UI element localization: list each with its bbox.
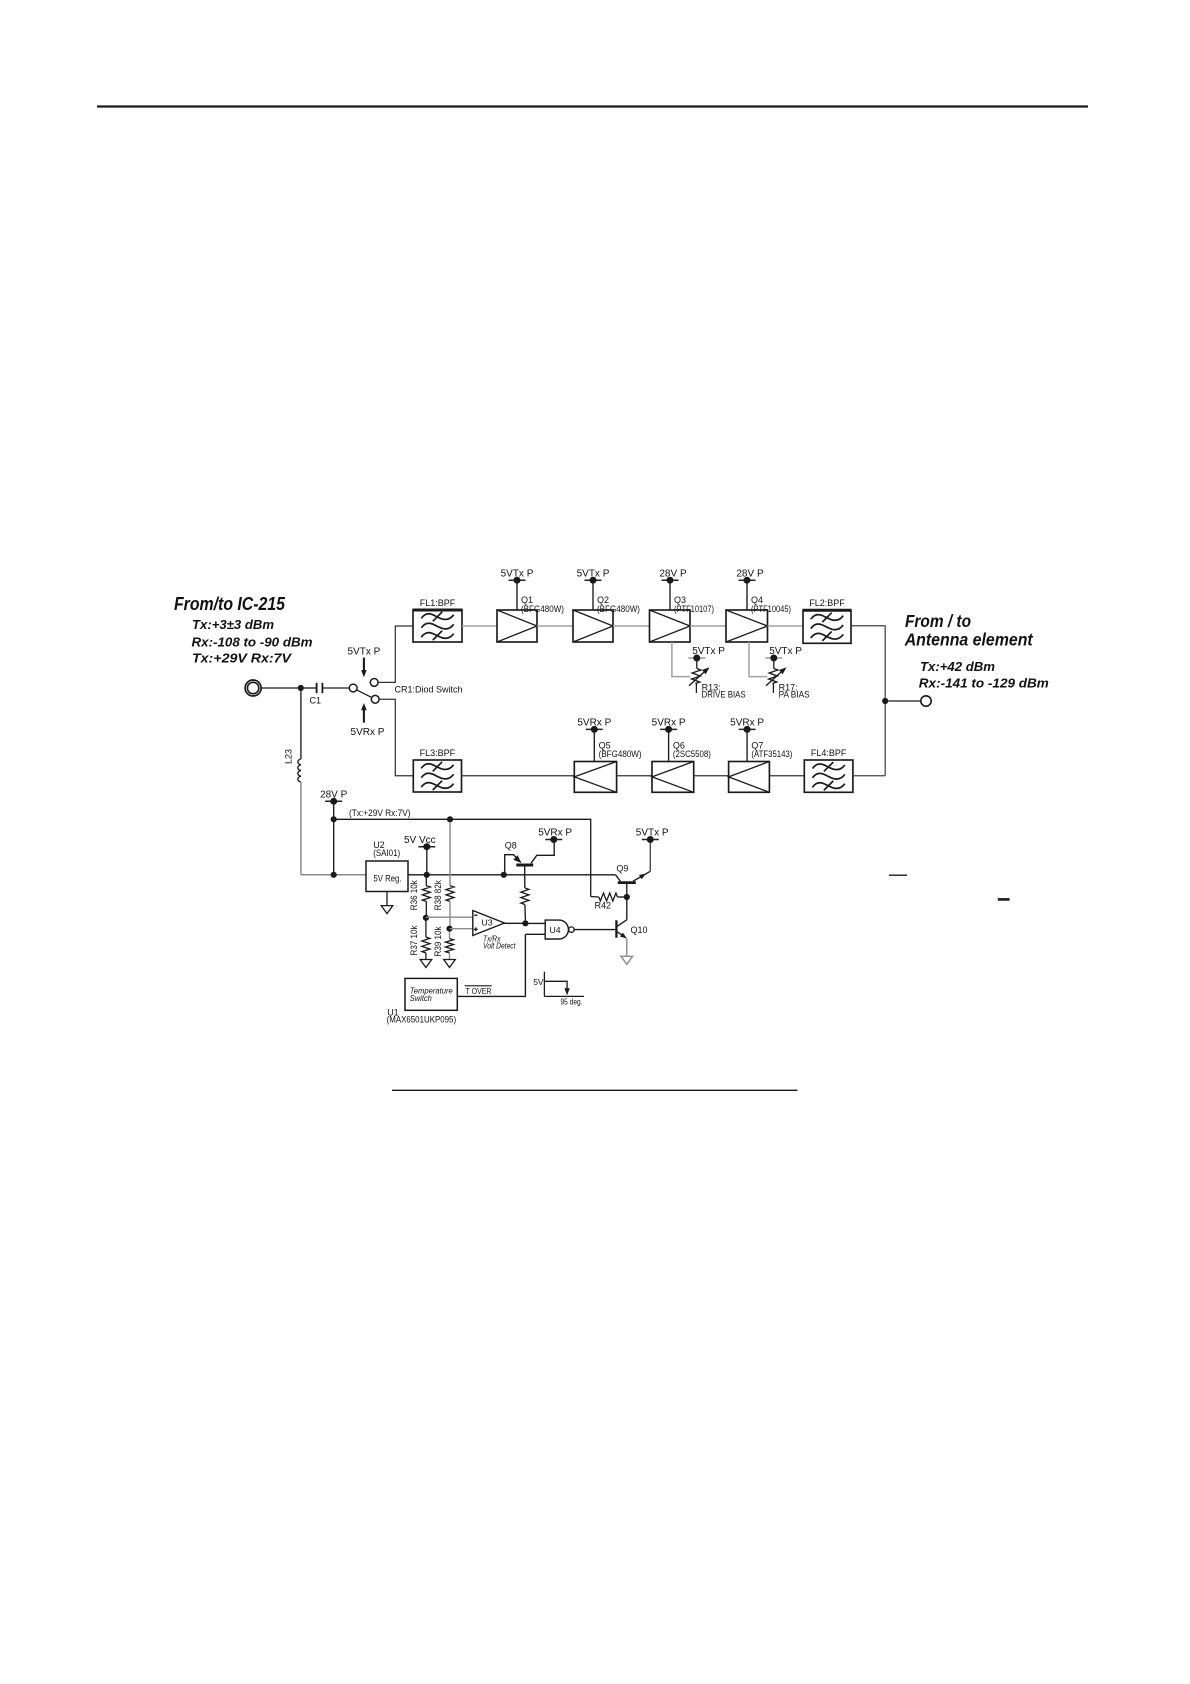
power 5VTx P (Q2) [577, 568, 610, 610]
wire [462, 775, 575, 777]
switch CR1 (common pole) [349, 684, 357, 692]
amplifier Q5 [574, 741, 641, 793]
switch CR1 throw contacts [370, 679, 379, 704]
wire (Q3 bias) [672, 642, 690, 677]
svg-text:5V: 5V [533, 977, 544, 987]
node [624, 894, 630, 900]
svg-text:(SAI01): (SAI01) [373, 848, 400, 858]
wire [449, 822, 451, 886]
label "Tx:+42 dBm" [920, 659, 995, 674]
wire (to U3 + input) [450, 928, 473, 930]
label "From/to IC-215" [174, 594, 286, 614]
node (input junction) [298, 685, 304, 691]
mark [889, 874, 907, 876]
svg-text:(ATF35143): (ATF35143) [751, 749, 792, 759]
wire [528, 922, 545, 924]
wire [301, 874, 366, 876]
wire (Tx:+29V Rx:7V rail) [334, 808, 591, 897]
transistor Q10 [616, 920, 647, 939]
wire [574, 929, 615, 931]
svg-text:28V P: 28V P [736, 568, 764, 579]
power 5VTx P (R17) [765, 646, 802, 661]
amplifier Q7 [729, 741, 793, 793]
power 5VTx P (Q9) [636, 828, 669, 843]
filter FL1 [413, 598, 463, 642]
control arrow 5VRx P (CR1) [351, 703, 385, 738]
wire [888, 700, 921, 702]
power 28V P (Q3) [659, 568, 687, 610]
svg-text:(BFG480W): (BFG480W) [599, 749, 642, 759]
power 5VTx P (R13) [688, 646, 725, 661]
svg-text:R38 82k: R38 82k [433, 880, 443, 910]
svg-text:From/to IC-215: From/to IC-215 [174, 594, 286, 614]
wire [617, 775, 652, 777]
power 5VRx P (Q5) [577, 718, 611, 762]
power 5V Vcc [404, 835, 436, 872]
switch CR1 arm [357, 690, 372, 698]
resistor R36 10k [409, 877, 430, 915]
svg-text:Tx:+42 dBm: Tx:+42 dBm [920, 659, 995, 674]
svg-text:R37 10k: R37 10k [409, 925, 419, 955]
filter FL3 [413, 748, 461, 792]
connector J2 (antenna) [921, 696, 931, 706]
power 28V P (rail) [320, 790, 348, 817]
node [423, 915, 429, 921]
svg-text:From / to: From / to [905, 611, 971, 631]
wire [300, 782, 302, 875]
resistor R37 10k [409, 921, 430, 960]
svg-text:(PTF10107): (PTF10107) [674, 604, 714, 614]
svg-text:U3: U3 [482, 918, 493, 928]
inductor L23 [284, 749, 301, 782]
svg-text:R36 10k: R36 10k [409, 880, 419, 910]
ground (U2) [381, 892, 393, 914]
svg-text:FL1:BPF: FL1:BPF [420, 598, 456, 608]
svg-text:(Tx:+29V Rx:7V): (Tx:+29V Rx:7V) [349, 808, 411, 818]
svg-text:5VTx P: 5VTx P [501, 568, 534, 579]
wire [853, 775, 885, 777]
node [501, 872, 507, 878]
svg-text:Q10: Q10 [631, 925, 648, 935]
transistor Q8 [505, 841, 555, 889]
amplifier Q1 [497, 595, 564, 642]
svg-text:5VRx P: 5VRx P [538, 828, 572, 839]
svg-text:5VTx P: 5VTx P [577, 568, 610, 579]
svg-text:5VRx P: 5VRx P [351, 727, 385, 738]
wire [626, 900, 628, 920]
svg-text:5VTx P: 5VTx P [692, 646, 725, 657]
resistor R38 82k [433, 880, 454, 926]
node [522, 920, 528, 926]
svg-text:C1: C1 [310, 696, 322, 706]
svg-text:5VTx P: 5VTx P [636, 828, 669, 839]
temperature switch U1 [387, 978, 458, 1024]
svg-text:5V Vcc: 5V Vcc [404, 835, 436, 846]
capacitor C1 [304, 683, 349, 706]
svg-text:5VRx P: 5VRx P [730, 718, 764, 729]
svg-text:FL4:BPF: FL4:BPF [811, 748, 847, 758]
wire [768, 625, 804, 627]
power 5VRx P (Q7) [730, 718, 764, 762]
svg-text:5VRx P: 5VRx P [652, 718, 686, 729]
svg-text:FL2:BPF: FL2:BPF [809, 598, 845, 608]
label "Tx:+3±3 dBm" [192, 617, 274, 632]
amplifier Q4 [726, 595, 791, 642]
amplifier Q2 [573, 595, 640, 642]
signal T OVER [457, 934, 525, 996]
mark [998, 898, 1010, 901]
ground (R37) [420, 960, 432, 968]
svg-text:Antenna element: Antenna element [904, 630, 1034, 650]
node [447, 816, 453, 822]
node [424, 872, 430, 878]
svg-text:(BFG480W): (BFG480W) [597, 604, 640, 614]
svg-text:(2SC5508): (2SC5508) [673, 749, 711, 759]
svg-text:Q9: Q9 [616, 863, 628, 873]
wire [690, 625, 726, 627]
svg-text:U4: U4 [550, 925, 561, 935]
svg-text:R42: R42 [595, 900, 612, 910]
amplifier Q6 [652, 741, 711, 793]
wire [537, 625, 573, 627]
svg-text:5VTx P: 5VTx P [348, 647, 381, 658]
label "From / to Antenna element" [904, 611, 1034, 650]
transistor Q9 [616, 843, 651, 895]
resistor R39 10k [433, 926, 454, 959]
filter FL2 [803, 598, 852, 643]
wire (Q4 bias) [749, 642, 767, 677]
svg-text:5VTx P: 5VTx P [769, 646, 802, 657]
svg-text:CR1:Diod Switch: CR1:Diod Switch [395, 684, 463, 694]
svg-text:PA BIAS: PA BIAS [779, 690, 810, 700]
svg-text:Volt Detect: Volt Detect [483, 941, 516, 951]
wire [462, 625, 497, 627]
wire [626, 938, 628, 956]
ground (R39) [444, 960, 456, 968]
svg-text:L23: L23 [284, 749, 294, 764]
label "CR1:Diod Switch" [395, 684, 463, 694]
node [331, 816, 337, 822]
wire [525, 933, 545, 935]
node (antenna junction) [882, 698, 888, 704]
svg-text:R39 10k: R39 10k [433, 926, 443, 956]
svg-text:Switch: Switch [410, 993, 432, 1003]
graph (5V vs 95 deg.) [533, 972, 584, 1007]
wire [261, 687, 298, 689]
wire [769, 775, 804, 777]
amplifier Q3 [650, 595, 715, 642]
svg-text:5V Reg.: 5V Reg. [374, 874, 402, 884]
svg-text:Q8: Q8 [505, 841, 517, 851]
svg-text:Rx:-108 to -90 dBm: Rx:-108 to -90 dBm [192, 635, 313, 650]
svg-text:Tx:+3±3 dBm: Tx:+3±3 dBm [192, 617, 274, 632]
wire (5V line) [408, 874, 616, 876]
connector J1 (From/to IC-215) [245, 680, 261, 696]
label "Rx:-141 to -129 dBm" [919, 675, 1049, 690]
node [446, 926, 452, 932]
ground (Q10) [621, 956, 633, 964]
svg-text:Tx:+29V Rx:7V: Tx:+29V Rx:7V [192, 650, 292, 665]
power 5VRx P (Q6) [652, 718, 686, 762]
wire [300, 691, 302, 759]
wire (FL2 to antenna node) [851, 626, 885, 776]
wire (to U3 - input) [426, 916, 473, 918]
variable resistor R17 [766, 661, 810, 699]
svg-text:Rx:-141 to -129 dBm: Rx:-141 to -129 dBm [919, 675, 1049, 690]
svg-text:T OVER: T OVER [466, 986, 492, 996]
wire (CR1 to FL1) [378, 626, 413, 682]
svg-text:(MAX6501UKP095): (MAX6501UKP095) [387, 1015, 457, 1025]
svg-text:DRIVE BIAS: DRIVE BIAS [702, 690, 746, 700]
wire [694, 775, 729, 777]
wire [613, 625, 650, 627]
wire (CR1 to FL3) [379, 699, 413, 776]
node [331, 872, 337, 878]
svg-text:5VRx P: 5VRx P [577, 718, 611, 729]
resistor R42 [591, 893, 624, 910]
control arrow 5VTx P (CR1) [348, 647, 381, 678]
wire [333, 821, 335, 872]
svg-text:FL3:BPF: FL3:BPF [420, 748, 456, 758]
power 5VRx P (Q8) [538, 828, 572, 843]
label "Rx:-108 to -90 dBm" [192, 635, 313, 650]
nand gate U4 [545, 920, 574, 939]
svg-text:(PTF10045): (PTF10045) [751, 604, 791, 614]
resistor (Q8 base) [521, 888, 529, 920]
label "Tx:+29V Rx:7V" [192, 650, 292, 665]
regulator U2 5V Reg. [366, 840, 408, 892]
svg-text:28V P: 28V P [320, 790, 348, 801]
wire [505, 922, 523, 924]
svg-text:28V P: 28V P [659, 568, 687, 579]
filter FL4 [804, 748, 853, 793]
power 28V P (Q4) [736, 568, 764, 610]
svg-text:95 deg.: 95 deg. [561, 997, 583, 1007]
variable resistor R13 [689, 661, 746, 699]
op-amp U3 Tx/Rx Volt Detect [473, 911, 516, 951]
svg-text:(BFG480W): (BFG480W) [521, 604, 564, 614]
power 5VTx P (Q1) [501, 568, 534, 610]
